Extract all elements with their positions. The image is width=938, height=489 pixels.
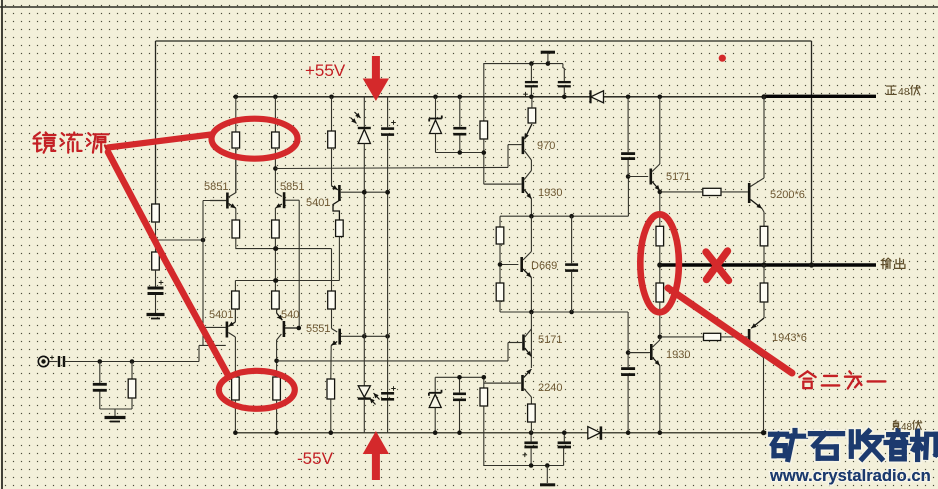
svg-text:48: 48 [898, 86, 910, 98]
svg-text:+55V: +55V [305, 61, 346, 80]
svg-text:1930: 1930 [538, 187, 562, 199]
svg-text:1943*6: 1943*6 [772, 332, 807, 344]
svg-text:-55V: -55V [297, 449, 334, 468]
svg-text:D669: D669 [531, 260, 557, 272]
svg-text:www.crystalradio.cn: www.crystalradio.cn [769, 466, 931, 485]
svg-text:5200*6: 5200*6 [770, 189, 805, 201]
svg-text:5171: 5171 [538, 334, 562, 346]
svg-text:1930: 1930 [666, 349, 690, 361]
svg-text:2240: 2240 [538, 382, 562, 394]
svg-text:5401: 5401 [306, 197, 330, 209]
svg-text:970: 970 [537, 140, 555, 152]
svg-text:5171: 5171 [666, 171, 690, 183]
svg-text:5851: 5851 [204, 181, 228, 193]
svg-text:5551: 5551 [306, 323, 330, 335]
svg-text:5851: 5851 [280, 181, 304, 193]
svg-text:540: 540 [281, 309, 299, 321]
svg-text:5401: 5401 [209, 309, 233, 321]
svg-text:48: 48 [901, 422, 913, 433]
